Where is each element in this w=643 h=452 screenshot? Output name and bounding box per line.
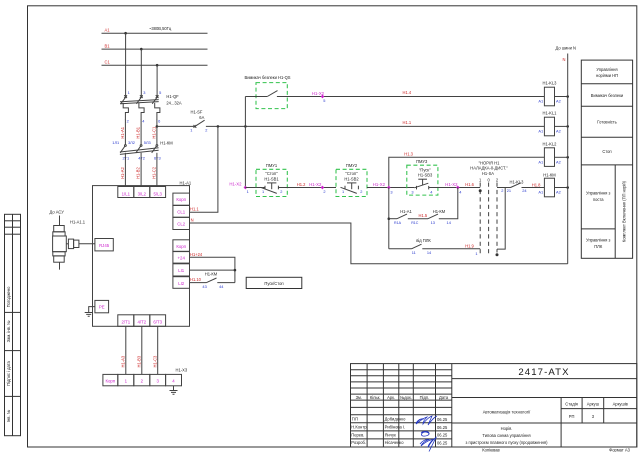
power section — [102, 26, 545, 212]
remote box Pusk/Stop — [246, 277, 302, 288]
svg-text:Н1-SB3: Н1-SB3 — [418, 172, 433, 177]
svg-text:Н1-С3: Н1-С3 — [152, 355, 157, 368]
input terminal 3/L2 — [134, 187, 150, 198]
wire KL2 to N — [555, 156, 568, 158]
node KL2 N — [566, 156, 569, 159]
output wire phase C — [157, 326, 159, 374]
svg-text:06.25: 06.25 — [437, 433, 448, 438]
output terminal 2/T1 — [118, 315, 134, 327]
side stamp row lines — [5, 220, 21, 222]
bus A1 — [102, 32, 208, 34]
terminal CL1 — [173, 206, 190, 218]
svg-text:Підп.: Підп. — [420, 395, 430, 400]
svg-text:Типова схема управління: Типова схема управління — [482, 433, 530, 438]
svg-text:24...32А: 24...32А — [166, 100, 182, 105]
svg-text:RJ45: RJ45 — [99, 243, 110, 248]
svg-text:поста: поста — [593, 197, 604, 202]
svg-text:А2: А2 — [556, 159, 561, 164]
svg-text:Н1-Х3: Н1-Х3 — [176, 367, 188, 372]
node KL1 N — [566, 125, 569, 128]
wire SA to KL3 contact — [497, 187, 511, 189]
svg-text:2: 2 — [280, 189, 282, 194]
svg-text:А1: А1 — [538, 99, 543, 104]
wire phase A drop — [125, 33, 127, 96]
svg-text:Підпис і дата: Підпис і дата — [6, 360, 11, 385]
terminal RJ45 — [95, 239, 113, 251]
svg-text:Н1-SB2: Н1-SB2 — [344, 176, 359, 181]
node bus A tap — [124, 32, 127, 35]
wire PLC to SA — [422, 248, 480, 250]
svg-text:1: 1 — [262, 189, 264, 194]
svg-text:Н1-А1: Н1-А1 — [400, 209, 412, 214]
wire QF to KM phase C — [156, 120, 158, 145]
wire SB3 to SA — [429, 187, 481, 189]
svg-text:1: 1 — [190, 128, 192, 133]
svg-text:А2: А2 — [556, 99, 561, 104]
PLC branch wire — [389, 248, 412, 250]
svg-text:Н1-А3: Н1-А3 — [120, 355, 125, 367]
wire into QS — [245, 96, 267, 98]
node LI1 join — [234, 269, 237, 272]
svg-text:А2: А2 — [556, 189, 561, 194]
node bypass start — [388, 217, 391, 220]
svg-text:Н1+24: Н1+24 — [190, 252, 203, 257]
svg-text:Корп: Корп — [176, 244, 186, 249]
soft starter H1-A1 — [50, 180, 192, 394]
svg-text:Янчук: Янчук — [385, 432, 396, 437]
svg-text:Вимикач безпеки: Вимикач безпеки — [591, 93, 623, 98]
svg-text:11: 11 — [412, 250, 416, 255]
svg-text:Н1-SF: Н1-SF — [191, 109, 203, 114]
control section — [190, 46, 576, 289]
function column — [581, 60, 632, 258]
svg-text:Н1.5: Н1.5 — [419, 213, 428, 218]
svg-text:Розроб.: Розроб. — [351, 440, 366, 445]
svg-text:2: 2 — [127, 118, 129, 123]
svg-text:з пристроєм плавного пуску (пр: з пристроєм плавного пуску (продовження) — [466, 440, 549, 445]
start button PMU3 H1-SB3 — [407, 159, 438, 195]
wire X2:1 to SB1 — [245, 187, 262, 189]
svg-text:2: 2 — [501, 188, 503, 193]
svg-text:06.25: 06.25 — [437, 417, 448, 422]
svg-text:N: N — [563, 57, 566, 62]
svg-text:5: 5 — [159, 90, 161, 95]
svg-text:Н.Контр.: Н.Контр. — [351, 425, 367, 430]
svg-text:Копіював: Копіював — [482, 448, 499, 452]
node SF out to CL1 — [217, 125, 220, 128]
svg-text:Пуск/Стоп: Пуск/Стоп — [264, 281, 283, 286]
wire KL1 to N — [555, 125, 568, 127]
svg-text:1: 1 — [475, 251, 477, 256]
svg-text:Н1.10: Н1.10 — [190, 277, 202, 282]
bypass return wire — [439, 188, 458, 219]
function column outline — [581, 60, 632, 258]
svg-text:А1: А1 — [105, 27, 111, 32]
svg-text:Інв. №: Інв. № — [6, 409, 11, 422]
contactor coil H1-KM — [538, 172, 560, 196]
svg-text:Н1.1: Н1.1 — [190, 207, 199, 212]
wire KM aux to +24 drop — [217, 282, 235, 284]
contact H1-A1 R1A-R1C — [394, 209, 419, 225]
doc number cell line — [452, 378, 637, 380]
node SB1 feed — [244, 125, 246, 127]
svg-text:Н1.1: Н1.1 — [403, 120, 412, 125]
wire KL2 feed — [389, 157, 545, 187]
wire riser QS/SB1 feed — [244, 97, 246, 188]
svg-text:Добиденко: Добиденко — [385, 417, 406, 422]
ground wire X3-4 — [173, 386, 175, 391]
svg-text:1: 1 — [342, 189, 344, 194]
right part verticals — [560, 398, 562, 448]
svg-text:Н1-КМ: Н1-КМ — [433, 209, 446, 214]
svg-text:"Стоп": "Стоп" — [265, 171, 278, 176]
wire KM to VFD phase C — [156, 153, 158, 186]
svg-text:Н1-КМ: Н1-КМ — [160, 141, 173, 146]
side stamp divider — [12, 214, 14, 435]
selector switch H1-SA — [470, 160, 508, 256]
svg-text:~380В,50Гц: ~380В,50Гц — [149, 26, 172, 31]
svg-text:Н1-KL3: Н1-KL3 — [543, 81, 558, 86]
svg-text:Н1-QF: Н1-QF — [166, 94, 179, 99]
svg-text:Н1-В3: Н1-В3 — [136, 355, 141, 367]
svg-text:Корп: Корп — [105, 379, 115, 384]
svg-text:від ПЛК: від ПЛК — [416, 238, 431, 243]
svg-text:2: 2 — [360, 189, 362, 194]
svg-text:Корп: Корп — [176, 197, 186, 202]
svg-text:Зам. інв. №: Зам. інв. № — [6, 320, 11, 342]
switch QS blade — [267, 91, 277, 97]
side stamp column — [5, 214, 21, 435]
breaker QF H1-QF — [120, 90, 182, 123]
node KL3 N — [566, 95, 569, 98]
svg-text:6/Т3: 6/Т3 — [153, 320, 162, 325]
svg-text:Н1-В1: Н1-В1 — [136, 126, 141, 138]
svg-text:Н1.6: Н1.6 — [465, 182, 474, 187]
contact H1-KL3 21-24 — [507, 179, 541, 193]
svg-text:2/Т1: 2/Т1 — [121, 320, 130, 325]
svg-text:Управління: Управління — [596, 67, 617, 72]
svg-text:Н1-А1: Н1-А1 — [180, 180, 192, 185]
wire SB2 to SB3 — [367, 187, 414, 189]
svg-text:N: N — [191, 218, 194, 223]
wire KL3 to N — [555, 96, 568, 98]
svg-text:13: 13 — [431, 220, 435, 225]
svg-text:Вимикач безпеки Н1-QS: Вимикач безпеки Н1-QS — [245, 75, 291, 80]
svg-text:Н1-В2: Н1-В2 — [136, 166, 141, 178]
svg-text:6А: 6А — [199, 115, 204, 120]
svg-text:06.25: 06.25 — [437, 425, 448, 430]
relay KL2 H1-KL2 — [538, 142, 560, 167]
svg-text:Норія.: Норія. — [501, 426, 513, 431]
svg-text:Н1-Х2: Н1-Х2 — [309, 182, 322, 187]
svg-text:ПМУ1: ПМУ1 — [266, 163, 278, 168]
svg-text:Н1-А1.1: Н1-А1.1 — [70, 220, 86, 225]
svg-text:5/L3: 5/L3 — [154, 192, 163, 197]
title block outline — [351, 364, 637, 447]
svg-text:4/Т2: 4/Т2 — [137, 320, 146, 325]
relay KL1 H1-KL1 — [538, 111, 560, 136]
svg-text:Управління з: Управління з — [586, 238, 610, 243]
svg-text:Стадія: Стадія — [565, 401, 578, 406]
wire connector to RJ45 — [79, 243, 95, 245]
signature ГІП — [416, 416, 437, 425]
svg-text:Н1-KL1: Н1-KL1 — [543, 111, 558, 116]
ground symbol PE — [85, 313, 93, 317]
svg-text:А1: А1 — [538, 128, 543, 133]
output wire phase A — [125, 326, 127, 374]
svg-text:1Л1: 1Л1 — [112, 140, 119, 145]
svg-text:CL2: CL2 — [177, 222, 185, 227]
svg-text:R1A: R1A — [394, 221, 402, 225]
wire KM coil to N — [555, 187, 568, 189]
safety switch H1-QS enclosure — [256, 83, 287, 109]
svg-text:Аркушів: Аркушів — [613, 401, 628, 406]
wire QF to KM phase B — [140, 120, 142, 145]
svg-text:3: 3 — [390, 189, 392, 194]
svg-text:До шини N: До шини N — [556, 46, 576, 51]
wire +24 — [190, 257, 235, 282]
terminal +24 — [173, 252, 190, 264]
stop button PMU2 H1-SB2 — [336, 163, 367, 197]
terminal Korp upper — [173, 193, 190, 205]
svg-text:Н1-SB1: Н1-SB1 — [264, 176, 279, 181]
title block left table row lines — [351, 369, 452, 371]
svg-text:Н1.3: Н1.3 — [404, 152, 413, 157]
svg-text:Н1-А1: Н1-А1 — [120, 126, 125, 138]
output terminal 4/T2 — [134, 315, 150, 327]
svg-text:Нісаченко: Нісаченко — [385, 440, 405, 445]
svg-text:Н1-Х2: Н1-Х2 — [229, 181, 242, 186]
svg-text:6: 6 — [158, 118, 160, 123]
svg-text:5: 5 — [323, 98, 325, 103]
svg-text:Дата: Дата — [439, 395, 449, 400]
svg-text:Автоматизація технології: Автоматизація технології — [483, 410, 531, 415]
bus C1 — [102, 64, 208, 66]
wire KM to VFD phase B — [140, 153, 142, 186]
wire QF to KM phase A — [124, 120, 126, 145]
svg-text:2: 2 — [205, 128, 207, 133]
svg-text:Н1-KL3: Н1-KL3 — [510, 179, 525, 184]
svg-text:2417-АТХ: 2417-АТХ — [518, 367, 569, 378]
H1-A1 outline — [93, 186, 190, 327]
output wire phase B — [141, 326, 143, 374]
svg-text:Н1-Х2: Н1-Х2 — [373, 182, 386, 187]
svg-text:А1: А1 — [538, 189, 543, 194]
title block left table verticals — [366, 364, 368, 447]
svg-text:5Л3: 5Л3 — [144, 140, 151, 145]
signature Розроб — [420, 438, 436, 452]
contact vid PLK — [412, 238, 432, 255]
wire vertical to CL1 — [190, 126, 218, 212]
wire SF output — [206, 125, 545, 127]
svg-text:Н1.9: Н1.9 — [465, 243, 474, 248]
svg-text:№док.: №док. — [400, 395, 412, 400]
terminal PE — [95, 300, 109, 312]
relay KL3 H1-KL3 — [538, 81, 560, 106]
terminal CL2 — [173, 217, 190, 229]
svg-text:ПМУ2: ПМУ2 — [346, 163, 358, 168]
svg-text:Зм.: Зм. — [356, 395, 362, 400]
wire QS output — [277, 96, 545, 98]
svg-text:ПМУ3: ПМУ3 — [416, 159, 428, 164]
signature Перев — [421, 431, 429, 436]
svg-text:А2: А2 — [556, 128, 561, 133]
svg-text:43: 43 — [202, 284, 206, 289]
svg-text:Н1-Х2: Н1-Х2 — [445, 182, 458, 187]
svg-text:РЕ: РЕ — [99, 305, 105, 310]
bypass branch vertical — [388, 188, 390, 249]
node bus C tap — [156, 64, 159, 67]
svg-text:Готовність: Готовність — [597, 120, 617, 125]
svg-text:Комплект Включення (ПП норій): Комплект Включення (ПП норій) — [622, 180, 627, 242]
terminal LI2 — [173, 277, 190, 289]
svg-text:ГІП: ГІП — [352, 417, 358, 422]
svg-text:Управління з: Управління з — [586, 191, 610, 196]
output terminal 6/T3 — [150, 315, 166, 327]
wire SA dist link — [497, 188, 505, 250]
terminal LI1 — [173, 264, 190, 276]
svg-text:Н1-С1: Н1-С1 — [152, 126, 157, 139]
node KM N — [566, 186, 569, 189]
contact H1-KM 13-14 — [428, 209, 452, 225]
svg-text:Н1.4: Н1.4 — [403, 90, 412, 95]
terminal strip H1-X3 — [103, 367, 188, 386]
svg-text:Н1-SA: Н1-SA — [482, 171, 494, 176]
input terminal 1/L1 — [118, 187, 134, 198]
svg-text:"Стоп": "Стоп" — [345, 171, 358, 176]
svg-text:3: 3 — [411, 189, 413, 194]
svg-text:Стоп: Стоп — [602, 149, 611, 154]
svg-text:Арк.: Арк. — [387, 395, 395, 400]
wire LI1 — [190, 269, 235, 271]
breaker SF H1-SF 6A — [190, 109, 207, 132]
svg-text:Н1-КМ: Н1-КМ — [543, 172, 556, 177]
svg-text:С1: С1 — [105, 59, 111, 64]
PE ground wire — [89, 307, 95, 313]
svg-text:РП: РП — [569, 414, 575, 419]
node SF out to QS/SB1 — [244, 125, 247, 128]
bypass wire — [389, 218, 397, 220]
contactor KM main contacts H1-KM — [112, 140, 173, 160]
svg-text:LI2: LI2 — [178, 281, 185, 286]
svg-text:В1: В1 — [105, 43, 111, 48]
svg-text:3/L2: 3/L2 — [138, 192, 147, 197]
svg-text:До АСУ: До АСУ — [50, 210, 65, 215]
wire phase B drop — [140, 49, 142, 96]
svg-text:Н1-KL2: Н1-KL2 — [543, 142, 558, 147]
wire between bypass contacts — [408, 218, 428, 220]
svg-text:+24: +24 — [178, 256, 186, 261]
node bus B tap — [140, 48, 143, 51]
svg-text:Кільк.: Кільк. — [370, 395, 381, 400]
svg-text:R1C: R1C — [411, 221, 419, 225]
contact H1-KM 43-44 — [202, 272, 224, 289]
svg-text:3: 3 — [143, 90, 145, 95]
bus B1 — [102, 48, 208, 50]
svg-text:LI1: LI1 — [178, 268, 185, 273]
input terminal 5/L3 — [150, 187, 166, 198]
svg-text:Перев.: Перев. — [351, 432, 364, 437]
svg-text:ПЛК: ПЛК — [594, 244, 603, 249]
svg-text:Н1-С2: Н1-С2 — [152, 166, 157, 179]
network connector H1-A1.1 — [53, 216, 79, 270]
svg-text:Формат А3: Формат А3 — [609, 447, 630, 452]
wire phase C drop — [156, 65, 158, 96]
svg-text:Аркуш: Аркуш — [587, 401, 599, 406]
svg-text:1: 1 — [247, 189, 249, 194]
svg-text:1/L1: 1/L1 — [122, 192, 131, 197]
svg-text:норіями НП: норіями НП — [596, 73, 618, 78]
svg-text:3Л2: 3Л2 — [128, 140, 135, 145]
svg-text:21: 21 — [507, 188, 511, 193]
svg-text:Погоджено: Погоджено — [6, 286, 11, 307]
svg-text:CL1: CL1 — [177, 210, 185, 215]
svg-text:Н1.8: Н1.8 — [532, 182, 541, 187]
svg-text:2: 2 — [323, 189, 325, 194]
wire C tap to SF — [157, 125, 195, 127]
svg-text:Рибінова І.: Рибінова І. — [385, 425, 406, 430]
svg-text:1: 1 — [128, 90, 130, 95]
ground symbol X3 — [170, 391, 178, 395]
wire SB1 to SB2 — [278, 187, 336, 189]
wire CL2 to N return — [190, 223, 568, 264]
svg-text:А1: А1 — [538, 159, 543, 164]
svg-text:06.25: 06.25 — [437, 440, 448, 445]
N bus — [567, 54, 569, 264]
terminal Korp lower — [173, 240, 190, 252]
stop button PMU1 H1-SB1 — [256, 163, 287, 197]
svg-text:Н1.2: Н1.2 — [297, 182, 306, 187]
wire LI2 — [190, 282, 207, 284]
svg-text:Н1-А2: Н1-А2 — [120, 166, 125, 178]
node phase C tap to SF — [156, 125, 159, 128]
wire KM to VFD phase A — [124, 153, 126, 186]
svg-text:Н1-КМ: Н1-КМ — [205, 272, 218, 277]
title block — [351, 364, 637, 452]
